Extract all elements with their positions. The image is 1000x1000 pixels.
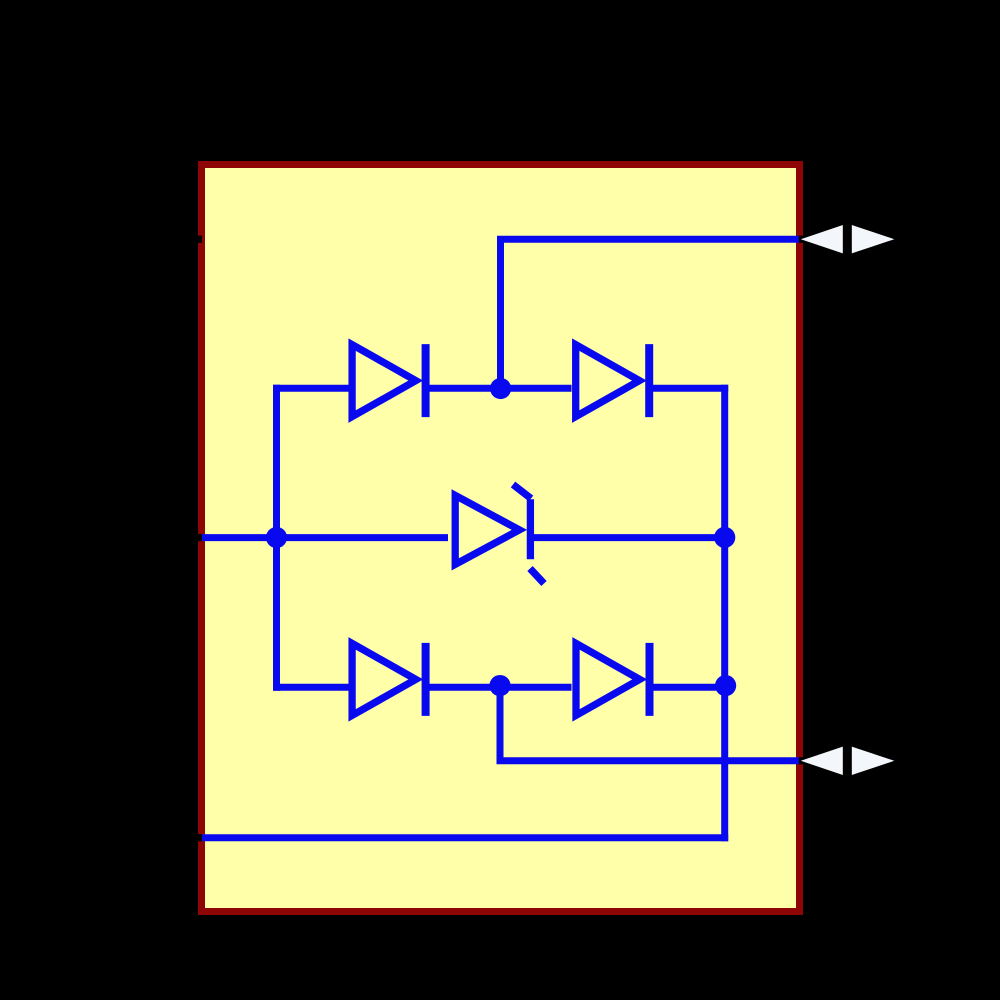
sheet pin right top	[799, 236, 803, 243]
wire top row left segment	[273, 385, 348, 392]
wire middle row right segment	[534, 534, 725, 541]
wire bottom row right segment	[654, 684, 729, 691]
diode D1	[352, 344, 426, 417]
node E junction	[715, 675, 736, 696]
diode D2	[576, 344, 650, 417]
node D junction	[489, 675, 510, 696]
wire bottom row left segment	[273, 684, 348, 691]
sheet pin right lower	[799, 757, 803, 764]
sheet pin left bottom	[197, 834, 203, 841]
sheet pin left middle	[197, 534, 203, 541]
bidirectional port marker top	[801, 225, 895, 253]
wire drop from node D to lower output	[497, 682, 504, 761]
wire top output net	[497, 236, 799, 243]
wire bottom row middle segment	[429, 684, 572, 691]
sheet pin left top	[197, 236, 203, 243]
wire top row right segment	[653, 385, 728, 392]
diode D3	[352, 643, 426, 716]
wire right bus vertical	[721, 385, 728, 842]
wire lower output net	[497, 757, 800, 764]
zener Z1	[455, 485, 544, 584]
wire vertical link from top net to node A	[497, 237, 504, 389]
diode D4	[576, 643, 650, 716]
node B junction	[266, 527, 287, 548]
bidirectional port marker lower	[801, 747, 895, 775]
wire top row middle segment	[429, 385, 572, 392]
wire left bus vertical	[273, 385, 280, 691]
node A junction	[490, 378, 511, 399]
node C junction	[714, 527, 735, 548]
wire middle row left segment	[202, 534, 448, 541]
wire bottom return net	[202, 834, 729, 841]
sheet U1 (hierarchical block body)	[202, 165, 800, 912]
